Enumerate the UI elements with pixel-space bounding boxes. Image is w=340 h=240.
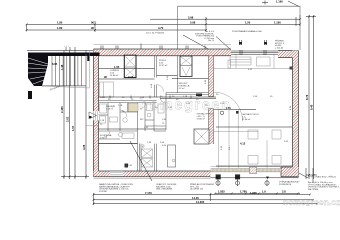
svg-text:4.70: 4.70 <box>158 26 164 30</box>
small + level ticks above wall, left <box>27 46 93 51</box>
svg-text:POZINK: POZINK <box>99 191 107 193</box>
svg-text:9.40: 9.40 <box>310 104 314 110</box>
svg-text:12.47 m²: 12.47 m² <box>159 64 168 67</box>
svg-text:1.48: 1.48 <box>60 64 64 70</box>
svg-text:1.80: 1.80 <box>57 20 63 24</box>
svg-text:homegreen: homegreen <box>139 98 232 114</box>
bottom-right corner annotations <box>306 168 340 191</box>
svg-text:1.190: 1.190 <box>274 21 281 25</box>
svg-text:4.12: 4.12 <box>240 142 246 146</box>
interior hatched wall (middle vertical) <box>208 56 214 144</box>
svg-text:1.9: 1.9 <box>262 190 266 194</box>
svg-text:4.26: 4.26 <box>82 144 86 150</box>
svg-text:14.80 m²: 14.80 m² <box>110 74 119 77</box>
svg-text:POZEDNICE: POZEDNICE <box>279 184 292 186</box>
vertical small dims inside <box>151 75 292 150</box>
dim tick rows inside <box>99 96 293 167</box>
chimney block <box>99 55 155 77</box>
svg-text:2.8: 2.8 <box>282 190 286 194</box>
tan shower rect <box>128 104 139 112</box>
bottom-right wall corner hatched <box>281 167 299 177</box>
table right room (bottom) <box>214 60 281 164</box>
room labels <box>100 60 259 140</box>
svg-text:Rw,TL: Rw,TL <box>208 40 215 42</box>
svg-text:90: 90 <box>91 20 94 24</box>
svg-text:3.2 m²: 3.2 m² <box>179 87 185 90</box>
svg-text:90: 90 <box>91 26 94 30</box>
right wall hatched band <box>293 51 299 177</box>
svg-text:Zd. tl. 45, P 300x80: Zd. tl. 45, P 300x80 <box>146 32 165 35</box>
svg-text:POROVNÁVACÍ HRANA ±0,000: POROVNÁVACÍ HRANA ±0,000 <box>232 30 263 33</box>
svg-text:1.190: 1.190 <box>276 0 283 4</box>
svg-text:= 214,00: = 214,00 <box>275 47 284 49</box>
svg-text:VYTYČOVACÍ BOD – HŘV-01: VYTYČOVACÍ BOD – HŘV-01 <box>308 176 337 179</box>
svg-text:8.76: 8.76 <box>305 94 309 100</box>
svg-text:2.15: 2.15 <box>128 75 134 79</box>
window tick pairs above top wall <box>101 44 205 50</box>
svg-text:2.69 m²: 2.69 m² <box>106 108 113 111</box>
bottom text blocks <box>99 181 300 193</box>
extra interior clutter: small rooms mid-left <box>99 103 167 140</box>
window tick pairs above right top wall <box>239 40 285 50</box>
svg-text:2.62: 2.62 <box>66 116 70 122</box>
svg-text:1.50: 1.50 <box>245 21 251 25</box>
svg-text:7.170: 7.170 <box>145 191 152 195</box>
door arcs small rooms <box>104 97 166 137</box>
interior dim line y79 <box>99 75 155 79</box>
svg-text:ULOŽENÍ 125: ULOŽENÍ 125 <box>190 188 204 191</box>
interior wall vertical between lożnice and pokoj <box>155 56 191 97</box>
svg-text:1.05: 1.05 <box>114 65 120 69</box>
svg-text:2.435: 2.435 <box>60 106 64 113</box>
scattered small dim numbers <box>100 69 289 167</box>
svg-text:8.05: 8.05 <box>52 62 58 66</box>
top wall hatched band <box>94 45 232 56</box>
top window strip <box>231 50 278 55</box>
svg-text:1.07: 1.07 <box>71 125 75 131</box>
svg-text:WC: WC <box>140 119 144 121</box>
bathroom fixtures top middle <box>172 56 209 96</box>
svg-text:37.80 m²: 37.80 m² <box>197 118 206 121</box>
left wall hatched band <box>86 49 99 177</box>
svg-text:90: 90 <box>104 75 107 79</box>
interior dim rows <box>160 99 292 146</box>
svg-text:+ + +: + + + <box>64 46 70 48</box>
X-square shaft <box>194 129 209 144</box>
svg-text:1.80: 1.80 <box>57 26 63 30</box>
terrace pier dim line <box>94 177 299 179</box>
dimension end slash ticks <box>26 16 319 205</box>
svg-text:5.98: 5.98 <box>188 15 194 19</box>
room middle horizontal walls <box>99 93 209 172</box>
top-right big rectangle (upper floor outline) <box>178 0 300 50</box>
leader diagonal bottom <box>130 141 152 181</box>
svg-text:ZALOŽENÍ: ZALOŽENÍ <box>308 188 319 191</box>
bottom wall hatched band (left portion) <box>94 171 211 177</box>
top-right wall hatched corner <box>278 51 299 58</box>
svg-text:1.825: 1.825 <box>250 191 257 195</box>
svg-text:37.80 m²: 37.80 m² <box>242 118 251 121</box>
svg-text:5.98: 5.98 <box>190 20 196 24</box>
svg-text:homegreen.cz: homegreen.cz <box>283 198 340 206</box>
svg-text:14.36: 14.36 <box>192 196 199 200</box>
annotation text top-middle-right <box>183 30 230 51</box>
beds left rooms <box>99 82 138 168</box>
svg-text:14.365: 14.365 <box>196 200 205 204</box>
svg-text:1.825: 1.825 <box>218 190 225 194</box>
svg-text:1.485: 1.485 <box>100 97 106 99</box>
kitchen bottom <box>140 142 176 171</box>
sofa / furniture top right <box>214 55 293 70</box>
svg-text:LEM. OBRUBNÍK: LEM. OBRUBNÍK <box>156 188 173 191</box>
big door arc living room <box>214 92 243 121</box>
